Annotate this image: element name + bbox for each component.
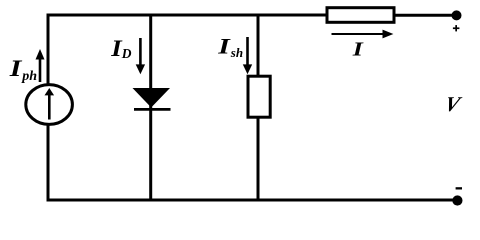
ID current arrow [136,38,145,74]
label ID [110,37,132,62]
svg-text:I: I [217,34,231,58]
current source U1 (photocurrent source circle) [26,85,73,125]
wire bottom horizontal [47,199,458,202]
svg-text:ph: ph [21,69,37,84]
wire shunt branch vertical bottom [257,117,260,200]
wire shunt branch vertical top [257,14,260,78]
diode D1 [133,88,171,109]
wire resistor to positive terminal [394,14,456,17]
wire top horizontal [47,14,329,17]
resistor Rsh (shunt) [248,76,270,117]
Iph current arrow [36,49,45,82]
svg-text:sh: sh [230,45,243,60]
svg-text:D: D [121,46,132,61]
svg-text:I: I [352,39,364,60]
label Iph [9,56,38,85]
svg-text:I: I [9,56,24,82]
wire diode branch vertical [149,14,152,201]
node negative terminal [452,195,462,205]
label plus [453,25,460,31]
svg-text:V: V [442,92,464,116]
node positive terminal [452,10,462,20]
label minus [456,187,462,189]
current source internal arrow [45,88,55,120]
I current arrow [332,30,394,39]
wire left vertical [47,14,50,201]
Ish current arrow [243,37,252,74]
label Ish [217,34,243,60]
resistor Rs (series) [327,8,394,23]
